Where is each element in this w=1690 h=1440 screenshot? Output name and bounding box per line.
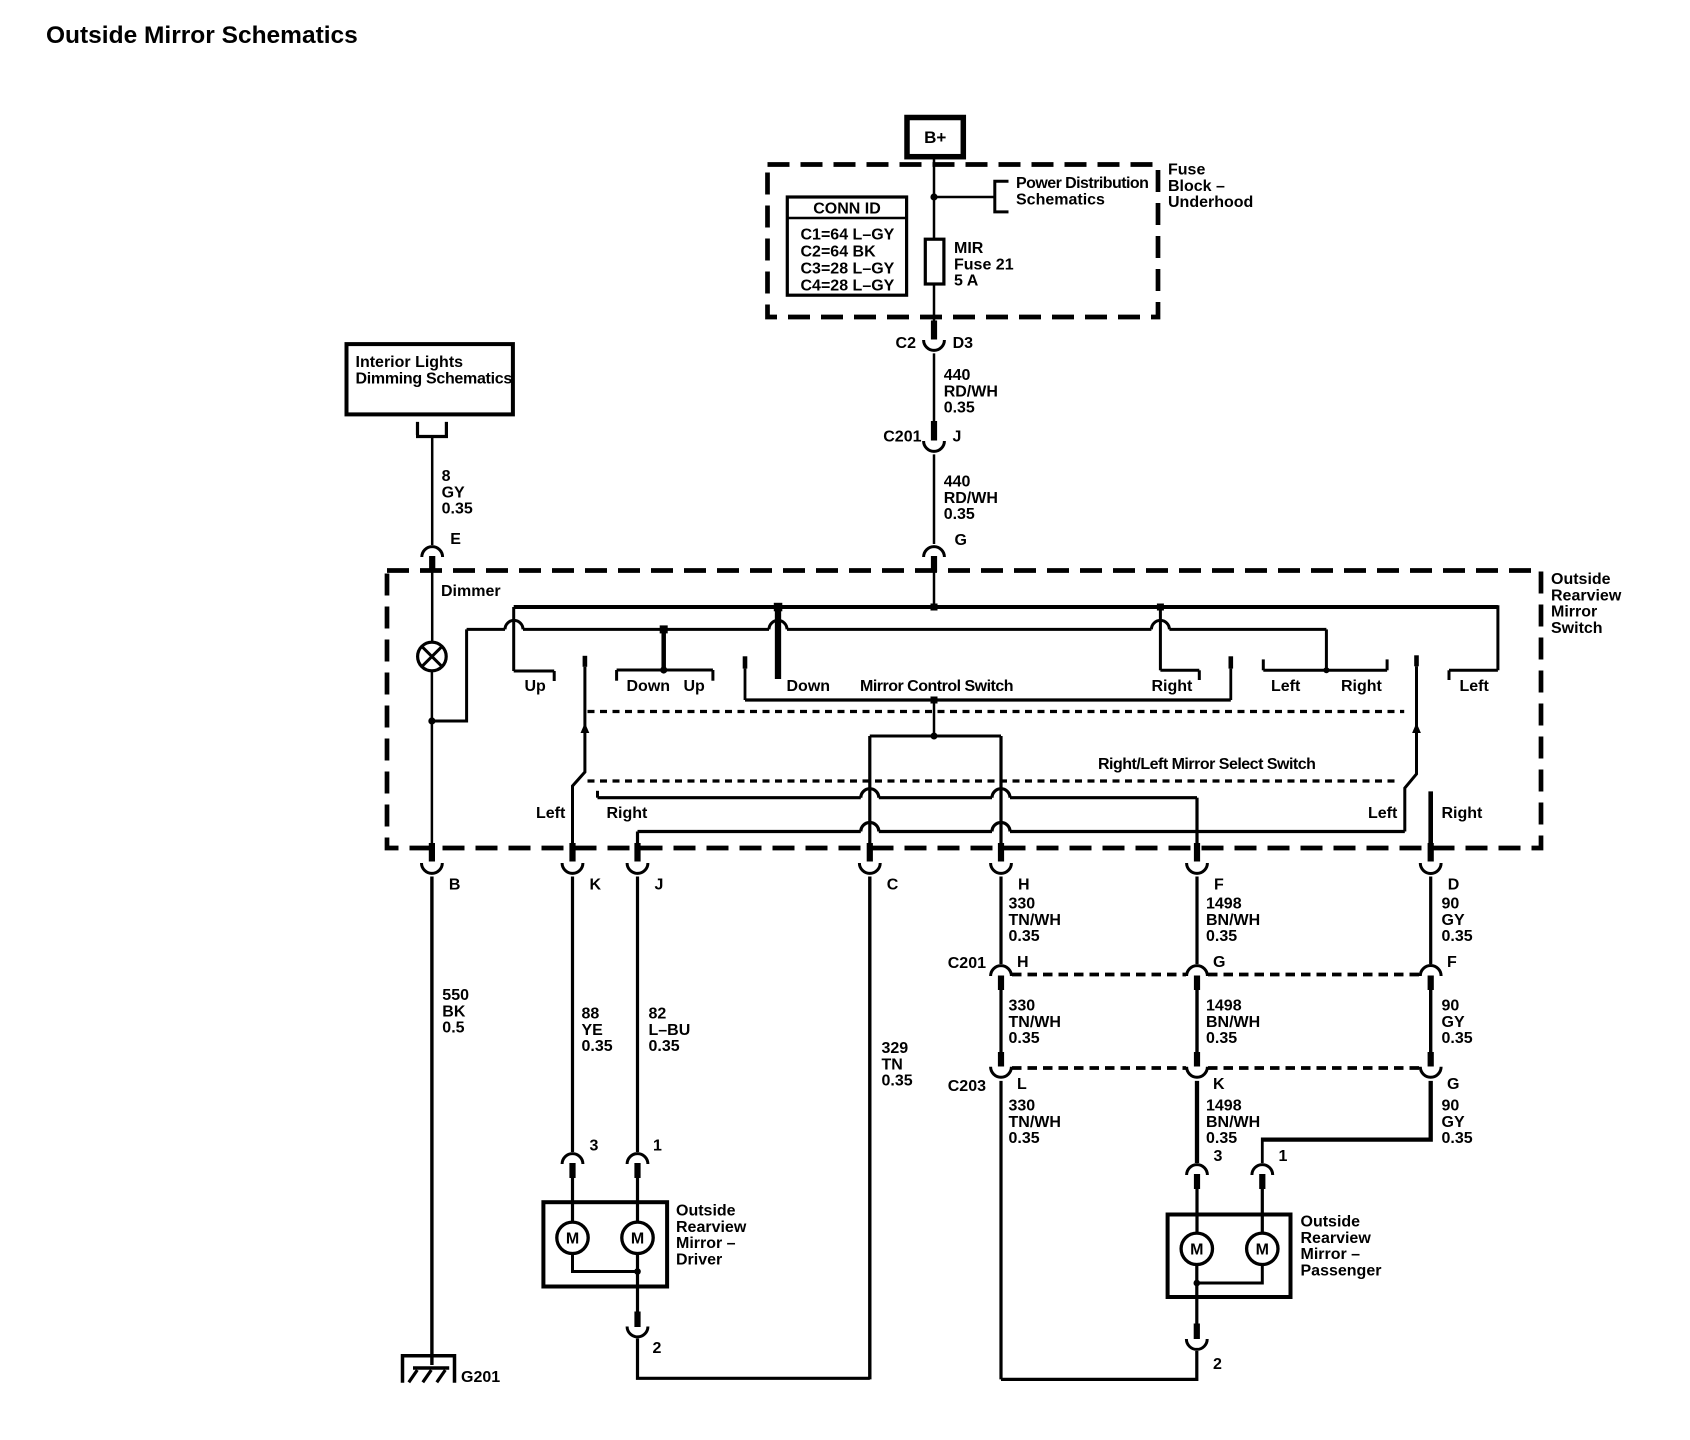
svg-text:0.35: 0.35 bbox=[1442, 1130, 1473, 1147]
connector pin D at switch bottom bbox=[1420, 843, 1441, 873]
label 1498 BN/WH 0.35 bbox=[1206, 896, 1260, 946]
svg-text:88: 88 bbox=[582, 1006, 600, 1023]
bus A (upper supply rail) bbox=[514, 605, 1498, 609]
label Outside Rearview Mirror Switch bbox=[1551, 571, 1622, 637]
bus B (lower supply rail) bbox=[467, 620, 1327, 629]
svg-text:C4=28 L–GY: C4=28 L–GY bbox=[801, 278, 895, 295]
wire 330 TN/WH 0.35 (pin H) bbox=[999, 877, 1002, 965]
svg-text:Outside: Outside bbox=[676, 1203, 736, 1220]
svg-text:0.35: 0.35 bbox=[882, 1073, 913, 1090]
wire 8 GY 0.35 bbox=[431, 437, 434, 545]
svg-text:D: D bbox=[1448, 877, 1460, 894]
svg-text:TN: TN bbox=[882, 1056, 903, 1073]
svg-text:1: 1 bbox=[653, 1138, 662, 1155]
switch contact pair Down/Up (center) bbox=[617, 625, 713, 680]
wire 330 TN/WH 0.35 lower to passenger return bbox=[999, 1081, 1002, 1380]
wire 88 YE 0.35 (pin K) bbox=[571, 877, 574, 1153]
wire pin 1 into driver mirror bbox=[636, 1178, 639, 1223]
svg-text:C201: C201 bbox=[883, 429, 921, 446]
wire pin 1 into passenger mirror bbox=[1261, 1189, 1264, 1234]
svg-text:BN/WH: BN/WH bbox=[1206, 1114, 1260, 1131]
svg-text:0.35: 0.35 bbox=[582, 1038, 613, 1055]
ground G201 bbox=[401, 1354, 456, 1383]
svg-text:K: K bbox=[590, 877, 602, 894]
switch contact Right (to pin D) bbox=[1428, 791, 1433, 861]
svg-text:1498: 1498 bbox=[1206, 1098, 1242, 1115]
svg-text:CONN ID: CONN ID bbox=[813, 201, 881, 218]
wire common to pin H bbox=[999, 736, 1002, 850]
svg-text:M: M bbox=[631, 1231, 644, 1248]
svg-text:Right: Right bbox=[1341, 678, 1383, 695]
svg-text:0.35: 0.35 bbox=[944, 506, 975, 523]
svg-text:H: H bbox=[1017, 954, 1029, 971]
wire B+ to fuse MIR bbox=[933, 157, 936, 240]
wire 90 GY 0.35 mid bbox=[1429, 990, 1432, 1053]
wire pin 3 into passenger mirror bbox=[1195, 1189, 1198, 1234]
wire 550 BK 0.5 to ground bbox=[430, 877, 433, 1366]
svg-text:0.35: 0.35 bbox=[1009, 1130, 1040, 1147]
label MIR Fuse 21 5 A bbox=[954, 240, 1014, 290]
wire E to dimmer lamp bbox=[431, 571, 434, 643]
svg-text:0.35: 0.35 bbox=[1009, 928, 1040, 945]
svg-text:Fuse 21: Fuse 21 bbox=[954, 256, 1014, 273]
svg-text:440: 440 bbox=[944, 367, 971, 384]
label 90 GY 0.35 bbox=[1442, 896, 1473, 946]
svg-text:90: 90 bbox=[1442, 998, 1460, 1015]
svg-text:G: G bbox=[955, 532, 967, 549]
label 88 YE 0.35 bbox=[582, 1006, 613, 1056]
svg-text:E: E bbox=[450, 531, 461, 548]
connector pin 1 driver mirror bbox=[627, 1154, 648, 1178]
connector C201 dashed line bbox=[1012, 973, 1420, 977]
svg-text:0.35: 0.35 bbox=[442, 501, 473, 518]
svg-text:C201: C201 bbox=[948, 955, 986, 972]
switch contact Right (from bus A) bbox=[1160, 607, 1199, 680]
svg-text:TN/WH: TN/WH bbox=[1009, 912, 1061, 929]
svg-text:BN/WH: BN/WH bbox=[1206, 1014, 1260, 1031]
mechanical coupling dotted line lower bbox=[588, 779, 1397, 782]
wire 1498 BN/WH 0.35 (pin F) bbox=[1195, 877, 1198, 965]
svg-text:Outside: Outside bbox=[1301, 1214, 1361, 1231]
svg-text:Right: Right bbox=[607, 805, 649, 822]
label 90 GY 0.35 lower bbox=[1442, 1098, 1473, 1148]
wire passenger motors common bbox=[1197, 1265, 1263, 1284]
svg-text:3: 3 bbox=[1214, 1148, 1223, 1165]
svg-text:8: 8 bbox=[442, 468, 451, 485]
connector C203 dashed line bbox=[1012, 1066, 1420, 1070]
svg-text:Schematics: Schematics bbox=[1016, 191, 1105, 208]
svg-text:1498: 1498 bbox=[1206, 998, 1242, 1015]
svg-text:L–BU: L–BU bbox=[649, 1022, 691, 1039]
svg-text:J: J bbox=[655, 877, 664, 894]
connector pin 2 driver mirror bbox=[627, 1312, 648, 1337]
wire 82 L-BU 0.35 (pin J) bbox=[636, 877, 639, 1153]
svg-text:0.35: 0.35 bbox=[1206, 928, 1237, 945]
svg-text:M: M bbox=[566, 1231, 579, 1248]
wire 1498 BN/WH 0.35 lower bbox=[1195, 1081, 1199, 1163]
label Fuse Block - Underhood bbox=[1168, 162, 1253, 212]
svg-text:G201: G201 bbox=[461, 1369, 500, 1386]
svg-text:B: B bbox=[449, 877, 461, 894]
wire common rectangle top bbox=[870, 735, 1001, 738]
svg-text:330: 330 bbox=[1009, 1098, 1036, 1115]
svg-text:D3: D3 bbox=[953, 335, 974, 352]
svg-text:Down: Down bbox=[627, 678, 671, 695]
off-page bracket Power Distribution bbox=[995, 181, 1009, 212]
node: B+ feed junction bbox=[930, 193, 937, 200]
wire select right contact to pin F bbox=[598, 789, 1198, 850]
svg-text:F: F bbox=[1214, 877, 1224, 894]
interior lights dimming schematics box bbox=[347, 344, 513, 414]
svg-text:82: 82 bbox=[649, 1006, 667, 1023]
label Power Distribution Schematics bbox=[1016, 175, 1148, 208]
svg-text:B+: B+ bbox=[924, 128, 946, 147]
wire passenger pin 2 return to pin H bbox=[1001, 1351, 1197, 1379]
node passenger motor junction bbox=[1194, 1280, 1201, 1287]
battery feed B+ bbox=[907, 118, 963, 157]
svg-text:Outside: Outside bbox=[1551, 571, 1611, 588]
svg-text:1: 1 bbox=[1279, 1148, 1288, 1165]
connector pin H at switch bottom bbox=[991, 843, 1012, 873]
wire pin J to select switch bbox=[638, 823, 1405, 850]
label Outside Rearview Mirror - Driver bbox=[676, 1203, 747, 1269]
label 90 GY 0.35 mid bbox=[1442, 998, 1473, 1048]
svg-text:Up: Up bbox=[684, 678, 706, 695]
wire pin 3 into driver mirror bbox=[571, 1178, 574, 1223]
svg-text:Left: Left bbox=[1368, 805, 1398, 822]
svg-text:M: M bbox=[1190, 1242, 1203, 1259]
connector bracket below interior lights box bbox=[416, 422, 448, 437]
wire 1498 BN/WH 0.35 mid bbox=[1195, 990, 1198, 1053]
svg-text:Rearview: Rearview bbox=[1551, 587, 1622, 604]
svg-text:0.35: 0.35 bbox=[1206, 1130, 1237, 1147]
svg-text:90: 90 bbox=[1442, 896, 1460, 913]
wire G feed to bus A bbox=[933, 571, 936, 607]
node common rectangle bbox=[931, 733, 938, 740]
label 330 TN/WH 0.35 mid bbox=[1009, 998, 1061, 1048]
connector C201 pin F bbox=[1420, 966, 1441, 990]
svg-text:RD/WH: RD/WH bbox=[944, 383, 998, 400]
label 440 RD/WH 0.35 upper bbox=[944, 367, 998, 417]
wire driver right motor to pin 2 bbox=[636, 1254, 639, 1313]
select switch blade right bbox=[1405, 655, 1421, 831]
svg-text:YE: YE bbox=[582, 1022, 604, 1039]
svg-text:Up: Up bbox=[525, 678, 547, 695]
connector pin J at switch bottom bbox=[627, 843, 648, 873]
node feed on bus A bbox=[931, 604, 938, 611]
switch contact Up (left) bbox=[514, 607, 555, 681]
svg-text:G: G bbox=[1213, 954, 1225, 971]
svg-text:Outside Mirror Schematics: Outside Mirror Schematics bbox=[46, 22, 358, 49]
wire lamp to pin B exit bbox=[431, 671, 434, 850]
connector C201 pin J bbox=[924, 421, 945, 451]
wire 440 RD/WH 0.35 upper bbox=[933, 353, 936, 421]
motor M passenger right bbox=[1247, 1233, 1278, 1264]
svg-text:Rearview: Rearview bbox=[676, 1219, 747, 1236]
connector C203 pin K bbox=[1187, 1052, 1208, 1077]
label 329 TN 0.35 bbox=[882, 1040, 913, 1090]
svg-text:Passenger: Passenger bbox=[1301, 1262, 1382, 1279]
label 550 BK 0.5 bbox=[442, 987, 469, 1037]
svg-text:C2=64 BK: C2=64 BK bbox=[801, 244, 877, 261]
svg-text:Underhood: Underhood bbox=[1168, 194, 1253, 211]
svg-text:TN/WH: TN/WH bbox=[1009, 1014, 1061, 1031]
CONN ID table bbox=[787, 197, 906, 295]
connector C201 pin H bbox=[991, 966, 1012, 990]
wire driver pin 2 to pin C return bbox=[638, 1339, 870, 1379]
wire common to pin C bbox=[868, 736, 871, 850]
connector pin K at switch bottom bbox=[562, 843, 583, 873]
label 1498 BN/WH 0.35 lower bbox=[1206, 1098, 1260, 1148]
wire driver motors common bbox=[573, 1254, 638, 1272]
svg-text:Block –: Block – bbox=[1168, 178, 1225, 195]
svg-text:Left: Left bbox=[536, 805, 566, 822]
motor M passenger left bbox=[1181, 1233, 1212, 1264]
svg-text:Fuse: Fuse bbox=[1168, 162, 1205, 179]
connector pin C at switch bottom bbox=[859, 843, 880, 873]
svg-text:Right: Right bbox=[1152, 678, 1194, 695]
label 330 TN/WH 0.35 bbox=[1009, 896, 1061, 946]
wire 90 GY 0.35 (pin D) bbox=[1429, 877, 1432, 965]
wire control switch common down bbox=[933, 700, 936, 736]
svg-text:G: G bbox=[1447, 1076, 1459, 1093]
wire 329 TN 0.35 (pin C) bbox=[868, 877, 871, 1380]
svg-text:Mirror –: Mirror – bbox=[676, 1235, 736, 1252]
svg-text:Right/Left Mirror Select Switc: Right/Left Mirror Select Switch bbox=[1098, 756, 1315, 773]
switch contact Left (far right, from bus A) bbox=[1449, 605, 1498, 680]
mirror control switch common bracket bbox=[743, 656, 1233, 703]
label 82 L-BU 0.35 bbox=[649, 1006, 691, 1056]
wire fuse to C2 connector bbox=[933, 284, 936, 322]
svg-text:Mirror Control Switch: Mirror Control Switch bbox=[860, 678, 1013, 695]
svg-text:K: K bbox=[1213, 1076, 1225, 1093]
svg-text:Left: Left bbox=[1271, 678, 1301, 695]
connector C203 pin G bbox=[1420, 1052, 1441, 1077]
svg-text:0.5: 0.5 bbox=[442, 1020, 464, 1037]
connector pin 1 passenger mirror bbox=[1252, 1165, 1273, 1189]
svg-text:Interior Lights: Interior Lights bbox=[356, 354, 464, 371]
svg-text:GY: GY bbox=[1442, 1014, 1465, 1031]
svg-text:BN/WH: BN/WH bbox=[1206, 912, 1260, 929]
svg-text:2: 2 bbox=[653, 1340, 662, 1357]
svg-text:0.35: 0.35 bbox=[944, 400, 975, 417]
svg-text:C203: C203 bbox=[948, 1078, 986, 1095]
wire 440 RD/WH 0.35 lower bbox=[933, 454, 936, 544]
svg-text:GY: GY bbox=[1442, 1114, 1465, 1131]
wire junction to Power Distribution bracket bbox=[934, 196, 994, 199]
svg-text:Switch: Switch bbox=[1551, 620, 1603, 637]
label Outside Rearview Mirror - Passenger bbox=[1301, 1214, 1382, 1280]
svg-text:BK: BK bbox=[442, 1003, 466, 1020]
motor M driver right bbox=[622, 1222, 653, 1253]
label 330 TN/WH 0.35 lower bbox=[1009, 1098, 1061, 1148]
connector pin 3 passenger mirror bbox=[1187, 1165, 1208, 1189]
svg-text:C: C bbox=[887, 877, 899, 894]
label 1498 BN/WH 0.35 mid bbox=[1206, 998, 1260, 1048]
svg-text:330: 330 bbox=[1009, 896, 1036, 913]
switch contact pair Left/Right (from bus B) bbox=[1263, 629, 1387, 673]
svg-text:3: 3 bbox=[590, 1138, 599, 1155]
svg-text:J: J bbox=[953, 429, 962, 446]
svg-text:Dimming Schematics: Dimming Schematics bbox=[356, 371, 513, 388]
svg-text:C2: C2 bbox=[896, 335, 917, 352]
svg-text:H: H bbox=[1018, 877, 1030, 894]
svg-text:550: 550 bbox=[442, 987, 469, 1004]
svg-text:0.35: 0.35 bbox=[1009, 1030, 1040, 1047]
svg-text:M: M bbox=[1256, 1242, 1269, 1259]
passenger mirror box bbox=[1168, 1215, 1291, 1298]
svg-text:0.35: 0.35 bbox=[1442, 928, 1473, 945]
svg-text:GY: GY bbox=[442, 484, 465, 501]
node bus A branch bbox=[1157, 604, 1164, 611]
connector pin 3 driver mirror bbox=[562, 1154, 583, 1178]
wire passenger left motor to pin 2 bbox=[1195, 1265, 1198, 1325]
svg-text:L: L bbox=[1017, 1076, 1027, 1093]
svg-text:0.35: 0.35 bbox=[649, 1038, 680, 1055]
wire dimmer branch to bus B bbox=[432, 629, 467, 721]
svg-text:329: 329 bbox=[882, 1040, 909, 1057]
svg-text:5 A: 5 A bbox=[954, 273, 979, 290]
mechanical coupling dotted line upper bbox=[588, 710, 1405, 713]
dimmer lamp bbox=[418, 642, 447, 671]
wire 330 TN/WH 0.35 mid bbox=[999, 990, 1002, 1053]
svg-text:90: 90 bbox=[1442, 1098, 1460, 1115]
fuse MIR Fuse 21 5A bbox=[925, 239, 944, 284]
svg-text:1498: 1498 bbox=[1206, 896, 1242, 913]
svg-text:0.35: 0.35 bbox=[1442, 1030, 1473, 1047]
svg-text:2: 2 bbox=[1213, 1356, 1222, 1373]
outside rearview mirror switch dashed box bbox=[387, 571, 1541, 849]
svg-text:RD/WH: RD/WH bbox=[944, 490, 998, 507]
fuse block dashed box bbox=[768, 165, 1159, 318]
connector pin E at switch bbox=[422, 547, 443, 572]
svg-text:Mirror: Mirror bbox=[1551, 604, 1597, 621]
connector pin G at switch bbox=[924, 547, 945, 572]
svg-text:440: 440 bbox=[944, 474, 971, 491]
driver mirror box bbox=[543, 1202, 667, 1286]
connector pin 2 passenger mirror bbox=[1186, 1324, 1207, 1350]
connector C201 pin G bbox=[1187, 966, 1208, 990]
switch contact Down (thick) bbox=[774, 603, 783, 679]
svg-text:MIR: MIR bbox=[954, 240, 984, 257]
svg-text:Right: Right bbox=[1442, 805, 1484, 822]
svg-text:Down: Down bbox=[787, 678, 831, 695]
connector C203 pin L bbox=[991, 1052, 1012, 1077]
label 440 RD/WH 0.35 lower bbox=[944, 474, 998, 524]
connector pin F at switch bottom bbox=[1187, 843, 1208, 873]
select switch blade left (to pin K) bbox=[573, 656, 590, 850]
svg-text:TN/WH: TN/WH bbox=[1009, 1114, 1061, 1131]
node dimmer junction bbox=[428, 717, 435, 724]
node driver motor junction bbox=[634, 1268, 641, 1275]
connector C2/D3 bbox=[924, 321, 945, 351]
svg-text:Driver: Driver bbox=[676, 1251, 722, 1268]
wire 90 GY 0.35 lower with jog to pin 1 bbox=[1262, 1081, 1430, 1140]
svg-text:Mirror –: Mirror – bbox=[1301, 1246, 1361, 1263]
svg-text:330: 330 bbox=[1009, 998, 1036, 1015]
motor M driver left bbox=[557, 1222, 588, 1253]
svg-text:GY: GY bbox=[1442, 912, 1465, 929]
svg-text:Dimmer: Dimmer bbox=[441, 583, 501, 600]
svg-text:Power Distribution: Power Distribution bbox=[1016, 175, 1148, 192]
svg-text:C1=64 L–GY: C1=64 L–GY bbox=[801, 227, 895, 244]
svg-text:0.35: 0.35 bbox=[1206, 1030, 1237, 1047]
svg-text:Left: Left bbox=[1460, 678, 1490, 695]
svg-text:F: F bbox=[1447, 954, 1457, 971]
svg-text:C3=28 L–GY: C3=28 L–GY bbox=[801, 261, 895, 278]
svg-text:Rearview: Rearview bbox=[1301, 1230, 1372, 1247]
label 8 GY 0.35 bbox=[442, 468, 473, 518]
connector pin B at switch bottom bbox=[422, 843, 443, 873]
